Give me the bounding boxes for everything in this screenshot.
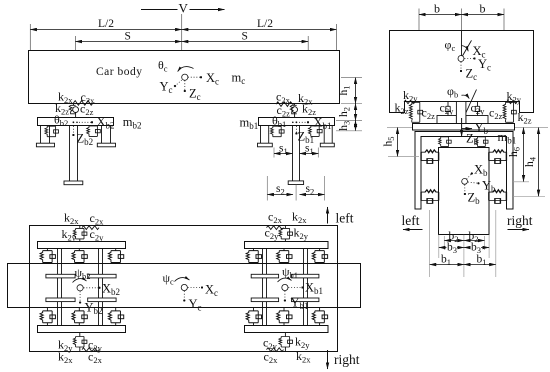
dimension s2 left bbox=[267, 194, 293, 196]
rotation arc theta_c bbox=[178, 67, 194, 72]
secondary glyph top b1 bbox=[284, 226, 286, 242]
primary suspension left b1 bbox=[271, 126, 285, 137]
bogie bottom bar b2 bbox=[38, 326, 126, 333]
dimension b3 left bbox=[439, 247, 464, 249]
arrow up (plan left) bbox=[327, 207, 329, 224]
dimension h6 bbox=[523, 128, 525, 182]
spring on bogie top left bbox=[439, 137, 452, 147]
center post b2 bbox=[70, 126, 78, 182]
k2z spring assembly left bbox=[409, 102, 422, 122]
dimension L/2 left bbox=[30, 29, 181, 31]
bottom secondary b2 bbox=[79, 333, 81, 352]
bogie frame staple bbox=[415, 132, 513, 210]
arrow down (plan right) bbox=[327, 350, 329, 369]
dimension h2 bbox=[355, 104, 357, 121]
svg-text:L/2: L/2 bbox=[257, 18, 273, 30]
arc phi_c bbox=[462, 46, 469, 52]
h6 datum line bbox=[513, 181, 529, 183]
axis Y_c bbox=[175, 80, 182, 86]
suspension boxes top row b2 bbox=[47, 249, 115, 265]
axis X_b2 bbox=[73, 121, 75, 123]
svg-text:L/2: L/2 bbox=[98, 18, 114, 30]
svg-text:b: b bbox=[434, 2, 440, 16]
b-dim extension lines bbox=[430, 210, 496, 277]
left wheel posts b2 bbox=[41, 126, 50, 143]
dimension b right bbox=[462, 14, 505, 16]
left wheel posts b1 bbox=[261, 126, 269, 143]
guideway band bbox=[8, 264, 361, 308]
bogie frame bar b1 bbox=[259, 118, 335, 126]
svg-text:V: V bbox=[179, 1, 189, 16]
spring c2x top zigzag bbox=[82, 226, 99, 230]
center vertical line through suspension bbox=[461, 102, 463, 123]
svg-text:Car body: Car body bbox=[96, 66, 142, 78]
bogie top bar b1 bbox=[245, 242, 329, 249]
side spring lower-left bbox=[421, 190, 439, 204]
dimension b1 right bbox=[464, 264, 496, 266]
bogie bottom bar b1 bbox=[245, 326, 329, 333]
svg-text:left: left bbox=[336, 211, 354, 226]
axis Z_c end view bbox=[460, 62, 462, 71]
axis Y_b at bolster bbox=[461, 128, 472, 130]
suspension boxes bottom row b2 bbox=[47, 307, 115, 325]
dimension S right bbox=[182, 41, 309, 43]
arrow left (end view) bbox=[403, 229, 423, 231]
s1 extension lines bbox=[274, 148, 318, 158]
wheels axle2 b2 bbox=[88, 274, 116, 278]
axle 2 b2 bbox=[99, 249, 103, 326]
damper c2y left bbox=[445, 102, 451, 116]
bogie frame bar b2 bbox=[38, 118, 114, 126]
velocity arrow V bbox=[141, 9, 225, 11]
origin circle end view bbox=[458, 56, 464, 62]
grey datum line at bolster level bbox=[387, 127, 548, 129]
h4 datum line bbox=[513, 195, 545, 197]
axle 2 b1 bbox=[304, 249, 308, 326]
h extension lines bbox=[336, 78, 362, 131]
arc phi_b bbox=[462, 95, 470, 98]
spring c2x bottom zigzag b2 bbox=[82, 348, 99, 352]
side spring lower-right bbox=[489, 190, 507, 204]
axle 1 b1 bbox=[263, 249, 267, 326]
axis Z_b2 bbox=[72, 126, 74, 135]
k2z spring assembly right bbox=[503, 102, 516, 122]
right wheel posts b1 bbox=[324, 126, 332, 143]
wheels axle2 b1 bbox=[292, 274, 319, 278]
axis Z_b1 bbox=[295, 126, 297, 134]
dimension b2 right bbox=[464, 240, 485, 242]
car body origin circle bbox=[182, 74, 188, 80]
center axis line bbox=[461, 30, 463, 55]
axis Y_b bogie bbox=[468, 182, 479, 183]
center post foot b1 bbox=[288, 181, 303, 185]
primary suspension right b2 bbox=[87, 126, 101, 136]
b dim extension lines bbox=[419, 9, 504, 31]
spring k2x/c2x horizontal zigzag bbox=[73, 101, 94, 106]
dimension h4 bbox=[538, 128, 540, 197]
svg-text:left: left bbox=[402, 213, 420, 228]
spring k2y left zigzag bbox=[404, 100, 415, 103]
secondary spring-damper k2z/c2z bbox=[69, 103, 78, 117]
suspension boxes top row b1 bbox=[254, 249, 320, 265]
wheels axle1 b2 bbox=[46, 274, 75, 278]
secondary spring-damper b1 bbox=[290, 103, 297, 117]
left wheel foot b2 bbox=[36, 143, 54, 147]
axis X_b1 bbox=[296, 121, 298, 123]
side spring upper-right bbox=[489, 150, 507, 164]
bogie top bar b2 bbox=[38, 242, 126, 249]
right wheel foot b1 bbox=[320, 143, 334, 147]
dimension b3 right bbox=[464, 247, 489, 249]
bottom secondary b1 bbox=[284, 333, 286, 352]
wheels axle1 b1 bbox=[251, 274, 278, 278]
arrow right (end view) bbox=[508, 229, 530, 231]
car body plan rect bbox=[30, 226, 338, 352]
dimension s1 right bbox=[300, 153, 319, 155]
right wheel posts b2 bbox=[102, 126, 111, 143]
spring c2x bottom zigzag b1 bbox=[267, 348, 284, 352]
left wheel foot b1 bbox=[258, 143, 273, 147]
h5 datum lines bbox=[388, 155, 419, 157]
axis Z_b at bolster bbox=[461, 118, 463, 137]
extension lines for L/2 and S dims bbox=[30, 14, 336, 51]
suspension boxes bottom row b1 bbox=[254, 307, 320, 325]
spring c2x top zigzag b1 bbox=[267, 226, 284, 230]
axis Z_b bogie bbox=[464, 185, 466, 194]
side spring upper-left bbox=[421, 150, 439, 164]
dimension s2 right bbox=[300, 194, 325, 196]
axis Y_c end view bbox=[465, 58, 475, 60]
pedestal right bbox=[466, 116, 488, 124]
dimension b2 left bbox=[444, 240, 464, 242]
primary suspension right b1 bbox=[309, 126, 323, 136]
s2 extension lines bbox=[267, 176, 324, 201]
axis X_b bbox=[467, 174, 472, 180]
dimension s1 left bbox=[274, 153, 293, 155]
svg-text:b: b bbox=[480, 2, 486, 16]
spring on bogie top right bbox=[475, 137, 488, 147]
secondary glyph top b2 bbox=[79, 226, 81, 242]
dimension b1 left bbox=[430, 264, 464, 266]
tilted axis phi_c bbox=[460, 40, 472, 60]
pedestal left bbox=[437, 116, 456, 124]
damper c2y right bbox=[475, 102, 481, 116]
car body end-view outline with bottom notch bbox=[390, 31, 534, 113]
right wheel foot b2 bbox=[97, 143, 115, 147]
dimension L/2 right bbox=[182, 29, 337, 31]
dimension h5 bbox=[397, 128, 399, 157]
primary suspension left b2 bbox=[45, 126, 59, 137]
svg-text:right: right bbox=[334, 352, 360, 367]
center post foot b2 bbox=[64, 181, 83, 185]
center post b1 bbox=[293, 126, 300, 182]
spring c2x horizontal zigzag bbox=[276, 102, 294, 107]
dimension h1 bbox=[355, 78, 357, 104]
svg-text:S: S bbox=[242, 31, 248, 43]
dimension h3 bbox=[355, 121, 357, 131]
center post end view bbox=[456, 102, 466, 124]
tilted axis phi_b bbox=[458, 90, 477, 131]
svg-text:S: S bbox=[125, 31, 131, 43]
dimension b left bbox=[419, 14, 462, 16]
axis Z_c bbox=[184, 81, 186, 92]
bogie inner mass rect bbox=[439, 148, 490, 235]
svg-text:right: right bbox=[507, 213, 533, 228]
spring k2y right zigzag bbox=[507, 100, 517, 103]
axis X_c bbox=[188, 76, 201, 78]
bolster bar bbox=[413, 124, 515, 131]
bogie origin circle bbox=[462, 179, 468, 185]
dimension S left bbox=[75, 41, 181, 43]
car body rectangle bbox=[29, 51, 340, 104]
axle 1 b2 bbox=[58, 249, 62, 326]
